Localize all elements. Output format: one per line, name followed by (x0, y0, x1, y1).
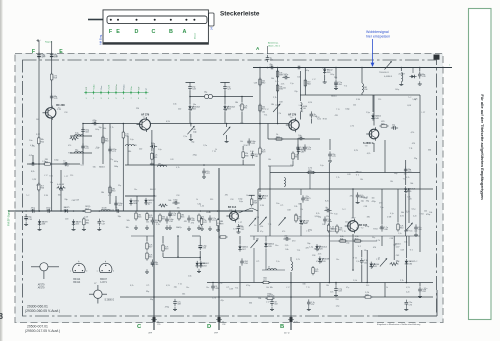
svg-text:470: 470 (282, 231, 285, 233)
green label B (280, 322, 298, 335)
svg-text:22p: 22p (110, 159, 113, 161)
node junction (39, 210, 41, 212)
node junction (189, 96, 191, 98)
svg-text:Dis.: Dis. (131, 85, 133, 89)
svg-text:1k: 1k (254, 225, 256, 227)
svg-text:L 17: L 17 (422, 112, 426, 114)
svg-text:C: C (152, 29, 156, 35)
svg-text:C53: C53 (392, 127, 395, 129)
ground (168, 225, 172, 229)
svg-text:C58: C58 (75, 199, 78, 201)
wire h196b (125, 195, 155, 197)
capacitor C56 feedthrough (216, 317, 222, 322)
svg-text:18k: 18k (101, 192, 104, 194)
svg-text:C43: C43 (133, 145, 136, 147)
svg-text:R60: R60 (400, 228, 403, 230)
svg-text:5,6p: 5,6p (320, 165, 324, 167)
resistor R12 (242, 150, 248, 159)
svg-text:470p: 470p (365, 226, 369, 228)
svg-text:470: 470 (335, 115, 338, 117)
wire h172 (270, 172, 420, 174)
node junction (352, 188, 354, 190)
svg-text:L 17: L 17 (238, 222, 242, 224)
resistor R1 (51, 72, 58, 81)
svg-text:C27: C27 (102, 223, 105, 225)
green mark bus end (449, 63, 451, 67)
wire v103 (102, 124, 104, 165)
svg-text:10k: 10k (404, 242, 407, 244)
svg-text:10k: 10k (407, 197, 410, 199)
svg-text:2,7k: 2,7k (277, 113, 281, 115)
wire v398 (397, 189, 399, 222)
diode D19 (199, 261, 209, 268)
svg-text:C58: C58 (244, 263, 247, 265)
svg-text:C12: C12 (172, 215, 175, 217)
wire trim1 up (190, 124, 192, 127)
svg-text:R81: R81 (86, 222, 89, 224)
svg-text:Tr 2: Tr 2 (406, 211, 409, 214)
svg-text:90p: 90p (294, 215, 297, 217)
ground (24, 222, 28, 226)
svg-text:220: 220 (139, 148, 142, 150)
svg-text:470p: 470p (372, 201, 376, 203)
inductor L5 (158, 163, 167, 166)
capacitor C60 (414, 224, 422, 231)
resistor R14 (259, 77, 265, 86)
ground (202, 174, 206, 178)
svg-text:Ratio: Ratio (122, 84, 125, 90)
resistor R11 (151, 152, 158, 161)
wire vc190 dn (189, 112, 191, 124)
wire D stub dark (218, 316, 220, 330)
wire v320low (319, 283, 321, 298)
capacitor C45 (240, 258, 247, 265)
resistor R6 (43, 159, 52, 165)
node junction (38, 163, 40, 165)
green note A section (256, 42, 281, 52)
capacitor C1 (37, 52, 45, 59)
connector strip Steckerleiste (103, 10, 208, 45)
transistor BC238 (0, 46, 437, 335)
capacitor C17 (188, 84, 195, 91)
svg-text:C58: C58 (287, 210, 290, 212)
svg-text:18k: 18k (360, 179, 363, 181)
capacitor C10 (114, 207, 121, 212)
svg-text:470p: 470p (165, 307, 169, 309)
wire v266b (265, 249, 267, 270)
diode D16 (370, 262, 380, 269)
ground (334, 293, 338, 297)
svg-text:220: 220 (408, 199, 411, 201)
svg-text:BA102: BA102 (150, 188, 156, 191)
svg-text:4,7k: 4,7k (318, 254, 322, 256)
svg-text:B.Krs: B.Krs (115, 83, 118, 89)
svg-text:R18: R18 (298, 219, 301, 221)
svg-text:18k: 18k (235, 102, 238, 104)
svg-text:1k: 1k (386, 287, 388, 289)
svg-text:330: 330 (366, 285, 369, 287)
svg-text:R24: R24 (201, 219, 204, 221)
svg-text:R80: R80 (105, 141, 108, 143)
wire v361 (361, 250, 363, 257)
svg-text:L 17: L 17 (365, 197, 369, 199)
svg-text:R56: R56 (41, 188, 44, 190)
svg-text:F: F (32, 49, 35, 55)
wire v293 (292, 161, 294, 166)
svg-text:R59: R59 (149, 217, 152, 219)
wire v200 (199, 236, 201, 243)
green label FM-ZF vertical (7, 210, 11, 226)
svg-text:90p: 90p (236, 214, 239, 216)
svg-text:100p: 100p (305, 70, 309, 72)
ground (323, 79, 327, 83)
diode D20 (238, 244, 248, 251)
capacitor C28 (303, 144, 311, 151)
svg-text:C95: C95 (157, 324, 160, 326)
ground (270, 307, 274, 311)
node junction (224, 96, 226, 98)
wire v243b (242, 160, 244, 165)
transistor S2800G (0, 68, 437, 335)
svg-text:33p: 33p (64, 199, 67, 201)
ground (72, 227, 76, 231)
svg-text:10n: 10n (29, 140, 32, 142)
inductor L6 (301, 103, 307, 112)
capacitor C25 (418, 71, 425, 78)
svg-text:12k: 12k (294, 206, 297, 208)
svg-text:10k: 10k (240, 141, 243, 143)
node junction (25, 210, 27, 212)
svg-text:R19: R19 (262, 152, 265, 154)
ground (237, 229, 241, 233)
resistor R34 (336, 224, 343, 233)
svg-text:L 17: L 17 (44, 175, 48, 177)
resistor R7 (122, 130, 129, 139)
ground (334, 86, 338, 90)
svg-text:4,7k: 4,7k (233, 229, 237, 231)
node junction (335, 67, 337, 69)
part number block lower (25, 325, 60, 334)
label trimpot (379, 72, 393, 78)
ground (145, 269, 149, 273)
svg-text:10n: 10n (297, 76, 300, 78)
node junction (60, 187, 62, 189)
svg-text:R17: R17 (85, 208, 88, 210)
svg-text:7,5n: 7,5n (380, 207, 384, 209)
resistor R35 (338, 236, 347, 242)
wire v123 (122, 124, 124, 212)
svg-text:5,6p: 5,6p (239, 201, 243, 203)
svg-text:100p: 100p (95, 129, 99, 131)
svg-text:C71: C71 (95, 148, 98, 150)
svg-text:330: 330 (249, 302, 252, 304)
svg-text:10n: 10n (283, 88, 286, 90)
wire center bus (125, 164, 255, 166)
svg-text:R 84: R 84 (57, 109, 61, 111)
svg-text:C84: C84 (325, 209, 328, 211)
svg-text:2,7k: 2,7k (281, 84, 285, 86)
diode D7 (371, 113, 381, 120)
capacitor C59 (172, 199, 179, 204)
border corner marker B (434, 55, 440, 60)
svg-text:7,5n: 7,5n (49, 175, 53, 177)
svg-text:8,2k: 8,2k (316, 213, 320, 215)
transistor BF414 (0, 68, 437, 335)
svg-text:D84: D84 (192, 109, 195, 111)
wire v260 (259, 68, 261, 124)
resistor R24 (295, 213, 301, 222)
svg-text:10k: 10k (271, 78, 274, 80)
diode D17 (405, 259, 415, 266)
svg-text:470: 470 (191, 222, 194, 224)
wire B stub dark (290, 316, 292, 330)
svg-text:10n: 10n (50, 182, 53, 184)
ground (356, 200, 360, 204)
svg-text:R 84: R 84 (356, 99, 360, 101)
resistor R36 (353, 236, 362, 242)
svg-text:R46: R46 (138, 217, 141, 219)
wire v336low (335, 283, 337, 286)
svg-text:10n: 10n (330, 213, 333, 215)
svg-text:18k: 18k (177, 208, 180, 210)
svg-text:10n: 10n (329, 221, 332, 223)
wire long vertical C (153, 148, 155, 330)
svg-text:C58: C58 (64, 112, 67, 114)
resistor R18 (304, 78, 310, 87)
svg-text:C53: C53 (307, 149, 310, 151)
green note Regena (45, 42, 53, 44)
capacitor C2 (50, 52, 58, 59)
green label D (207, 322, 225, 335)
ground (165, 225, 169, 229)
svg-text:33p: 33p (236, 218, 239, 220)
node junction (335, 282, 337, 284)
ground (38, 227, 42, 231)
svg-text:D83: D83 (227, 109, 230, 111)
wire v305 (304, 68, 306, 96)
svg-text:C71: C71 (256, 261, 259, 263)
capacitor C41 (208, 215, 216, 222)
inner border solid corner (378, 290, 437, 316)
resistor R15 (259, 103, 265, 112)
trimmer (187, 126, 196, 135)
diode D5 (223, 104, 235, 111)
svg-text:2,2n: 2,2n (398, 233, 402, 235)
svg-text:R45: R45 (315, 271, 318, 273)
ground (173, 307, 177, 311)
svg-text:56k: 56k (36, 119, 39, 121)
svg-text:18k: 18k (256, 239, 259, 241)
svg-text:10n: 10n (134, 189, 137, 191)
capacitor C8 (30, 207, 37, 212)
svg-text:C58: C58 (176, 195, 179, 197)
svg-text:8,2k: 8,2k (60, 190, 64, 192)
resistor R40 (146, 251, 153, 260)
svg-text:R39: R39 (165, 249, 168, 251)
svg-text:C43: C43 (396, 255, 399, 257)
wire v61 (60, 170, 62, 211)
svg-text:1,5k: 1,5k (200, 205, 204, 207)
wire C stub dark (153, 316, 155, 330)
svg-text:BF414: BF414 (73, 279, 80, 281)
wire top bus (253, 67, 452, 69)
svg-text:8,2k: 8,2k (31, 171, 35, 173)
node junction (177, 256, 179, 258)
svg-text:12k: 12k (372, 264, 375, 266)
node junction (259, 123, 261, 125)
capacitor C20 (295, 66, 302, 70)
wire v240 (239, 236, 241, 244)
svg-text:Osz.: Osz. (101, 85, 103, 90)
resistor R37 (390, 263, 399, 266)
ground (189, 137, 193, 141)
value label texture (26, 68, 432, 309)
svg-text:R41: R41 (276, 136, 279, 138)
svg-text:R25: R25 (381, 123, 384, 125)
svg-text:18k: 18k (390, 181, 393, 183)
svg-text:C95: C95 (42, 56, 45, 58)
capacitor C62 (114, 200, 122, 207)
wire v330 (329, 139, 331, 150)
wire left cap row bus (27, 163, 80, 165)
svg-text:1k: 1k (196, 199, 198, 201)
svg-text:33p: 33p (314, 249, 317, 251)
svg-text:R81: R81 (295, 157, 298, 159)
svg-text:1-OY1: 1-OY1 (100, 282, 107, 284)
svg-text:7,5n: 7,5n (183, 136, 187, 138)
svg-text:A: A (183, 29, 187, 35)
wire v152 (151, 130, 153, 151)
svg-text:18k: 18k (270, 287, 273, 289)
svg-text:10k: 10k (404, 174, 407, 176)
trimmer (380, 258, 387, 267)
svg-text:1,5k: 1,5k (173, 103, 177, 105)
top plus marks (37, 39, 43, 42)
svg-text:D83: D83 (133, 203, 136, 205)
svg-text:C17: C17 (212, 220, 215, 222)
ground (82, 227, 86, 231)
svg-text:C29: C29 (284, 238, 287, 240)
wire h234 (131, 235, 154, 237)
svg-text:R91: R91 (244, 108, 247, 110)
svg-text:100p: 100p (345, 109, 349, 111)
capacitor C43 (360, 258, 368, 265)
resistor R21 (259, 146, 266, 155)
svg-text:4,7k: 4,7k (212, 298, 216, 300)
capacitor C50 (307, 299, 315, 306)
svg-text:C49: C49 (251, 143, 254, 145)
svg-text:10n: 10n (276, 203, 279, 205)
svg-text:C80: C80 (269, 66, 272, 68)
resistor R48 (109, 185, 115, 194)
svg-text:7,5n: 7,5n (409, 230, 413, 232)
ground (208, 226, 212, 230)
trimmer (279, 217, 286, 226)
svg-text:29500-007.01: 29500-007.01 (27, 325, 48, 329)
svg-text:330: 330 (428, 149, 431, 151)
svg-text:1,5k: 1,5k (353, 280, 357, 282)
diode D14 (315, 244, 327, 251)
resistor R39 (146, 241, 153, 250)
wire h166 (268, 165, 293, 167)
svg-text:D 4E: D 4E (387, 216, 392, 218)
resistor R27 (217, 218, 223, 227)
svg-text:8,2k: 8,2k (406, 177, 410, 179)
svg-text:C43: C43 (65, 219, 68, 221)
svg-text:220: 220 (70, 175, 73, 177)
svg-text:470: 470 (184, 221, 187, 223)
svg-text:E: E (116, 29, 120, 35)
diode D9 (404, 186, 416, 193)
svg-text:8,2k: 8,2k (110, 209, 114, 211)
capacitor C14 (247, 138, 255, 145)
trimmer (251, 240, 258, 249)
part number block upper (25, 305, 60, 314)
node junction (419, 67, 421, 69)
svg-text:18k: 18k (271, 104, 274, 106)
svg-text:12k: 12k (424, 211, 427, 213)
svg-text:56k: 56k (93, 167, 96, 169)
svg-text:AF 279: AF 279 (288, 114, 297, 117)
inductor L10 (268, 266, 277, 270)
node junction (267, 67, 269, 69)
svg-text:1,5p: 1,5p (396, 261, 400, 263)
svg-text:10n: 10n (372, 197, 375, 199)
svg-text:T 11: T 11 (268, 224, 272, 226)
svg-text:T 11: T 11 (342, 231, 346, 233)
svg-text:Tr 2: Tr 2 (410, 249, 413, 252)
inductor L1 (75, 133, 84, 136)
svg-text:BA102: BA102 (331, 94, 337, 97)
svg-text:2,2n: 2,2n (413, 216, 417, 218)
node junction (352, 269, 354, 271)
svg-text:18k: 18k (128, 151, 131, 153)
svg-text:1,5p: 1,5p (309, 246, 313, 248)
svg-text:12k: 12k (364, 250, 367, 252)
svg-text:220: 220 (345, 222, 348, 224)
svg-text:C71: C71 (280, 205, 283, 207)
wire v336 (335, 68, 337, 80)
svg-text:330: 330 (210, 199, 213, 201)
node junction (217, 210, 219, 212)
svg-text:10k: 10k (322, 224, 325, 226)
svg-text:470: 470 (379, 203, 382, 205)
capacitor C16 (202, 168, 210, 175)
svg-text:BA102: BA102 (331, 228, 337, 231)
svg-text:220: 220 (136, 108, 139, 110)
ground (134, 225, 138, 229)
resistor R46 (159, 213, 165, 222)
ground (197, 269, 201, 273)
svg-text:8,2k: 8,2k (325, 200, 329, 202)
svg-text:R55: R55 (181, 217, 184, 219)
ground (399, 82, 403, 86)
node junction (277, 67, 279, 69)
svg-text:D 4E: D 4E (192, 129, 197, 131)
svg-text:22p: 22p (174, 287, 177, 289)
svg-text:0,4680 Ω: 0,4680 Ω (384, 76, 393, 78)
node junction (177, 235, 179, 237)
node junction (226, 123, 228, 125)
green label C (137, 322, 160, 335)
svg-text:33p: 33p (191, 142, 194, 144)
svg-text:C85: C85 (215, 288, 218, 290)
transistor AF279b (0, 46, 437, 335)
svg-text:C18: C18 (63, 163, 66, 165)
svg-text:12k: 12k (146, 222, 149, 224)
capacitor C34 (301, 195, 309, 202)
wire F input vertical (38, 41, 40, 211)
